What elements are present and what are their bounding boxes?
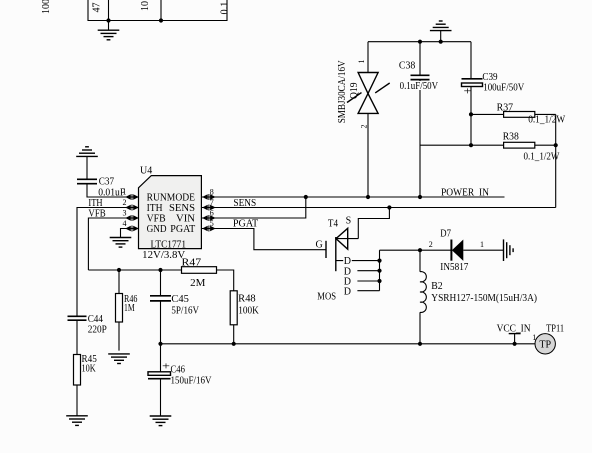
label TP11	[546, 323, 564, 334]
junction drain 3	[377, 279, 381, 283]
junction drain 2	[377, 269, 381, 273]
resistor R47	[182, 267, 234, 291]
wire drain stub 4	[357, 290, 379, 292]
wire stub from cap 10	[160, 0, 162, 21]
pin 1 of D7	[480, 240, 484, 249]
wire VCC_IN bottom rail	[161, 343, 536, 345]
svg-text:VIN: VIN	[176, 213, 195, 224]
value 5P/16V	[171, 306, 199, 317]
label R46	[124, 294, 137, 305]
resistor R46	[116, 270, 123, 351]
pin 1 of U4	[123, 187, 139, 200]
svg-text:1M: 1M	[124, 303, 135, 314]
junction top-left bus x=108.5	[106, 18, 110, 22]
svg-text:MOS: MOS	[317, 292, 336, 303]
resistor R45	[74, 355, 81, 416]
label C38	[399, 61, 415, 72]
svg-text:SENS: SENS	[169, 203, 195, 214]
resistor R38	[420, 142, 556, 148]
label C39	[482, 72, 497, 83]
svg-text:VFB: VFB	[147, 213, 166, 224]
svg-text:C38: C38	[399, 61, 415, 72]
svg-text:U4: U4	[140, 166, 152, 177]
pin 4 of U4	[123, 219, 139, 232]
test point TP11	[535, 334, 555, 354]
wire PGAT from U4 pin 5 to gate	[201, 229, 326, 250]
svg-text:TP: TP	[539, 340, 551, 351]
capacitor C44	[68, 316, 87, 354]
label R47	[182, 258, 202, 269]
junction drain 1	[377, 259, 381, 263]
ground below R45	[66, 416, 88, 426]
wire source to SENS tap	[358, 208, 389, 239]
svg-text:GND: GND	[147, 224, 167, 235]
pin label RUNMODE	[147, 192, 195, 203]
junction R48 bottom	[232, 342, 236, 346]
net label VCC_IN	[497, 323, 531, 334]
svg-text:R47: R47	[182, 258, 202, 269]
svg-text:8: 8	[210, 187, 214, 196]
wire SENS from U4 pin 7	[201, 207, 555, 209]
svg-text:C44: C44	[88, 314, 103, 325]
label R38	[503, 132, 519, 143]
label C45	[171, 294, 189, 305]
label U4	[140, 166, 152, 177]
label D7	[440, 229, 451, 240]
value 1M	[124, 303, 135, 314]
IC U4 LTC1771 body	[139, 176, 202, 249]
value 220P	[88, 324, 108, 335]
junction C38 top	[418, 40, 422, 44]
resistor R37	[471, 112, 556, 118]
inductor B2	[420, 250, 426, 344]
svg-text:220P: 220P	[88, 324, 108, 335]
pin 1 of Q19 (rotated)	[357, 60, 366, 64]
wire VFB from U4 pin 3 down to feedback node	[88, 218, 138, 270]
svg-text:R48: R48	[238, 294, 256, 305]
ground below C46	[150, 416, 172, 426]
pin label D row 4	[344, 287, 351, 298]
pin labels VFB VIN	[147, 213, 195, 224]
wire U4 pin 4 to ground	[121, 229, 139, 238]
svg-text:C46: C46	[171, 364, 185, 375]
svg-text:0.1: 0.1	[220, 2, 231, 15]
junction C39 to R38 line	[469, 143, 473, 147]
net label VFB	[88, 209, 106, 220]
pin 2 of D7	[429, 240, 433, 249]
junction top ground	[439, 40, 443, 44]
plus sign of C46	[162, 362, 171, 373]
svg-text:2M: 2M	[190, 278, 205, 289]
wire POWER_IN from U4 pin 8	[201, 196, 504, 198]
svg-text:10K: 10K	[82, 363, 97, 374]
wire drain to D7 and B2	[380, 249, 452, 251]
pin 5 of U4	[202, 219, 216, 232]
svg-text:100: 100	[41, 0, 52, 14]
svg-text:R38: R38	[503, 132, 519, 143]
TVS diode Q19	[347, 42, 390, 197]
value label 0.1 (rotated, cut off)	[220, 2, 231, 15]
ground right of D7 (pointing right)	[504, 239, 514, 261]
ground below R46	[108, 354, 130, 364]
ground above C37	[76, 147, 98, 179]
svg-text:1: 1	[480, 240, 484, 249]
svg-text:C45: C45	[171, 294, 189, 305]
svg-text:T4: T4	[328, 219, 338, 230]
svg-text:SENS: SENS	[233, 198, 256, 209]
svg-text:IN5817: IN5817	[440, 262, 468, 273]
pin label D row 1	[343, 256, 352, 267]
value 150uF/16V	[171, 376, 213, 387]
junction top-left bus x=161	[159, 18, 163, 22]
svg-text:100K: 100K	[238, 306, 259, 317]
label R37	[497, 102, 513, 113]
junction VCC_IN port	[513, 342, 517, 346]
transistor T4 P-MOSFET	[326, 228, 358, 271]
svg-text:3: 3	[123, 208, 127, 217]
svg-text:47: 47	[92, 3, 103, 13]
label Q19 (rotated)	[349, 83, 360, 100]
junction B2 top	[418, 248, 422, 252]
svg-text:+: +	[464, 87, 473, 98]
svg-text:D7: D7	[440, 229, 451, 240]
label 12V/3.8V	[142, 250, 186, 261]
label R45	[82, 354, 97, 365]
value label 47 (rotated, cut off)	[92, 3, 103, 13]
pin 7 of U4	[202, 198, 216, 211]
svg-text:SMBJ30CA/16V: SMBJ30CA/16V	[337, 60, 348, 124]
svg-text:1: 1	[123, 187, 127, 196]
label C44	[88, 314, 103, 325]
value label 100 (rotated, cut off top-left)	[41, 0, 52, 14]
value 100uF/50V	[483, 82, 525, 93]
value label 10 (rotated, cut off)	[140, 1, 151, 11]
wire top bus Q19/C38/C39	[368, 41, 471, 43]
pin labels GND PGAT	[147, 224, 196, 235]
pin label D row 2	[344, 266, 351, 277]
svg-text:0.1_1/2W: 0.1_1/2W	[528, 115, 566, 126]
svg-text:2: 2	[429, 240, 433, 249]
net label POWER_IN	[441, 187, 489, 198]
wire top-left ground bus	[88, 0, 227, 21]
label S	[346, 216, 352, 227]
svg-text:4: 4	[123, 219, 127, 228]
junction R46 top	[117, 268, 121, 272]
svg-text:POWER_IN: POWER_IN	[441, 187, 489, 198]
svg-text:0.1_1/2W: 0.1_1/2W	[524, 151, 560, 162]
wire drain stub 1	[336, 260, 380, 262]
net label PGAT	[233, 219, 258, 230]
svg-text:R37: R37	[497, 102, 513, 113]
capacitor C46 (polarized)	[148, 344, 171, 416]
ground GND at U4 pin 4	[110, 238, 132, 248]
svg-text:S: S	[346, 216, 352, 227]
svg-text:7: 7	[210, 198, 214, 207]
pin 1 of TP11	[532, 333, 536, 342]
svg-text:1: 1	[532, 333, 536, 342]
svg-text:12V/3.8V: 12V/3.8V	[142, 250, 186, 261]
wire drain stub 2	[357, 270, 379, 272]
net label SENS	[233, 198, 256, 209]
wire drain stub 3	[357, 280, 379, 282]
value YSRH127-150M(15uH/3A)	[431, 293, 537, 304]
pin 3 of U4	[123, 208, 139, 221]
wire C37 to U4 pin 1	[87, 184, 139, 197]
pin 2 of Q19 (rotated)	[360, 125, 369, 129]
junction B2 bottom	[418, 342, 422, 346]
svg-text:RUNMODE: RUNMODE	[147, 192, 195, 203]
capacitor C37	[77, 179, 97, 183]
value SMBJ30CA/16V (rotated)	[337, 60, 348, 124]
wire drain bus vertical	[379, 250, 381, 291]
svg-text:B2: B2	[431, 281, 442, 292]
junction R38 right	[554, 143, 558, 147]
label R48	[238, 294, 256, 305]
svg-text:0.1uF/50V: 0.1uF/50V	[400, 81, 439, 92]
svg-text:G: G	[316, 240, 323, 251]
pin labels ITH SENS	[147, 203, 195, 214]
power port VCC_IN	[509, 334, 521, 344]
junction C45/C46	[158, 342, 162, 346]
svg-text:10: 10	[140, 1, 151, 11]
wire VIN riser from U4 pin 6	[201, 197, 305, 218]
wire feedback node line	[88, 269, 181, 271]
svg-text:PGAT: PGAT	[233, 219, 258, 230]
label LTC1771	[151, 240, 187, 251]
capacitor C45	[150, 270, 171, 344]
label B2	[431, 281, 442, 292]
label G	[316, 240, 323, 251]
label C46	[171, 364, 185, 375]
svg-text:6: 6	[210, 208, 214, 217]
ground top (pointing up)	[430, 21, 452, 42]
svg-text:C37: C37	[99, 177, 114, 188]
junction Q19 bottom	[366, 195, 370, 199]
svg-text:+: +	[162, 362, 171, 373]
svg-text:2: 2	[123, 198, 127, 207]
value 2M	[190, 278, 205, 289]
svg-text:1: 1	[357, 60, 366, 64]
value 0.1_1/2W of R38	[524, 151, 560, 162]
pin 2 of U4	[123, 198, 139, 211]
wire stub from cap 47	[108, 0, 110, 21]
svg-text:5: 5	[210, 219, 214, 228]
resistor R48	[230, 291, 237, 344]
wire sense divider right vertical	[555, 114, 557, 207]
diode D7	[451, 240, 503, 261]
pin 6 of U4	[202, 208, 216, 221]
value 100K	[238, 306, 259, 317]
pin label D row 3	[344, 277, 351, 288]
label MOS	[317, 292, 336, 303]
junction C39 to R37	[469, 112, 473, 116]
svg-text:VCC_IN: VCC_IN	[497, 323, 531, 334]
svg-text:YSRH127-150M(15uH/3A): YSRH127-150M(15uH/3A)	[431, 293, 537, 304]
capacitor C39 (polarized)	[462, 42, 483, 146]
value 0.01uF	[98, 187, 125, 198]
svg-text:PGAT: PGAT	[170, 224, 195, 235]
label T4	[328, 219, 338, 230]
svg-text:Q19: Q19	[349, 83, 360, 100]
value IN5817	[440, 262, 468, 273]
value 0.1uF/50V	[400, 81, 439, 92]
svg-text:5P/16V: 5P/16V	[171, 306, 199, 317]
svg-text:D: D	[344, 287, 351, 298]
value 0.1_1/2W of R37	[528, 115, 566, 126]
svg-text:TP11: TP11	[546, 323, 564, 334]
label C37	[99, 177, 114, 188]
svg-text:2: 2	[360, 125, 369, 129]
pin 8 of U4	[202, 187, 216, 200]
svg-text:150uF/16V: 150uF/16V	[171, 376, 213, 387]
svg-text:ITH: ITH	[147, 203, 163, 214]
junction VIN riser	[304, 195, 308, 199]
capacitor C38	[411, 42, 430, 197]
net label ITH	[88, 198, 102, 209]
ground GND top-left	[98, 21, 120, 40]
junction C45 top	[158, 268, 162, 272]
junction C38 bottom	[418, 195, 422, 199]
junction SENS source tap	[387, 205, 391, 209]
value 10K	[82, 363, 97, 374]
svg-text:100uF/50V: 100uF/50V	[483, 82, 525, 93]
wire ITH from U4 pin 2 down to C44	[77, 208, 139, 317]
plus sign of C39	[464, 87, 473, 98]
